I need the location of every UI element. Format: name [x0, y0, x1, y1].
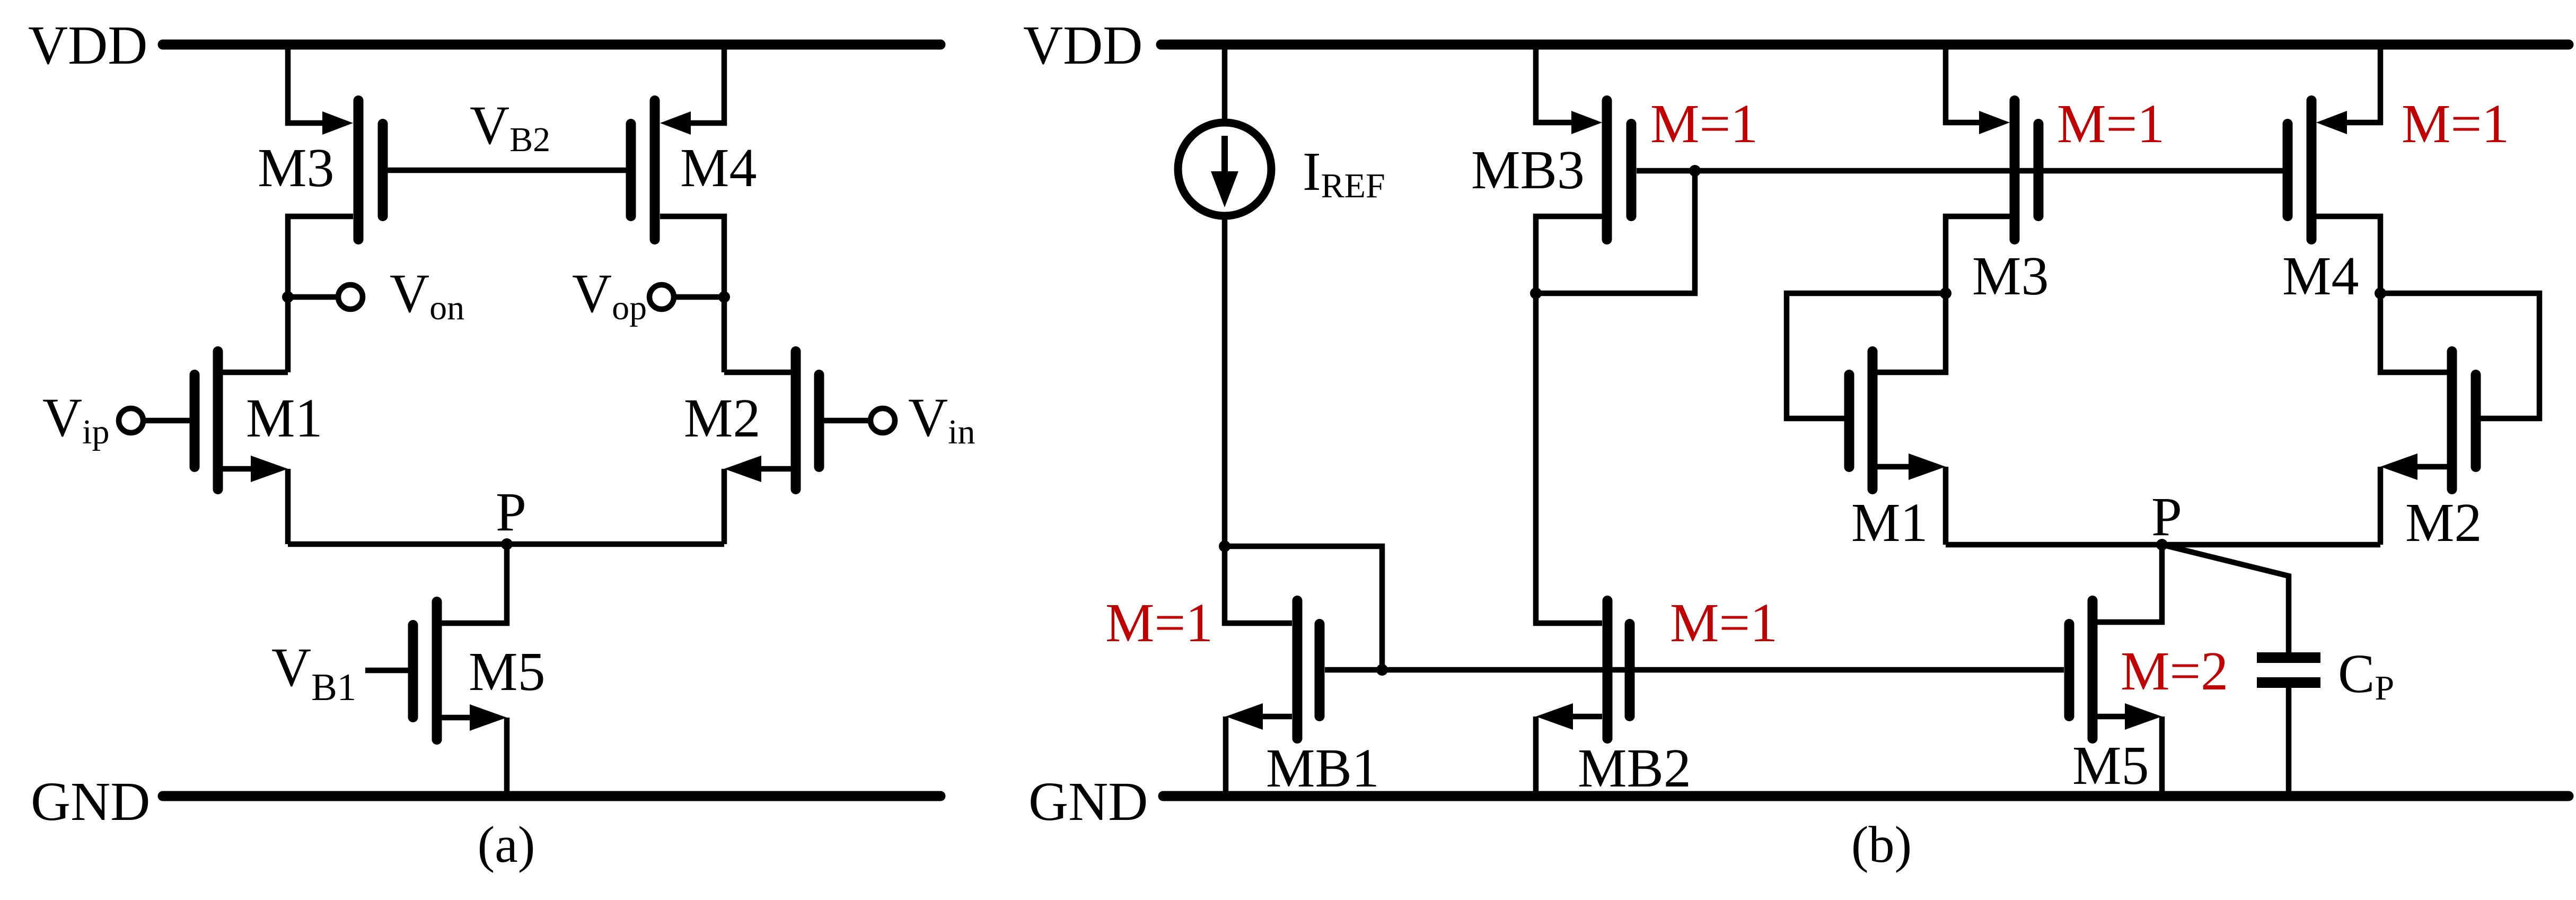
wire M4b source from VDD — [2346, 47, 2380, 123]
wire gate bus M3-M4 (VB2) — [383, 168, 631, 173]
svg-text:M=1: M=1 — [1105, 592, 1213, 653]
terminal Von circle — [338, 285, 363, 309]
gate bus MB1-MB2-M5 — [1325, 667, 2064, 673]
gate bus MB3-M3-M4 — [1637, 168, 2283, 174]
M4 source arrow — [660, 111, 691, 135]
wire M1 drain — [223, 370, 288, 375]
svg-text:M=1: M=1 — [1670, 592, 1778, 653]
MB2 source arrow — [1536, 703, 1573, 730]
VDD rail (a) — [163, 40, 940, 50]
wire M4 drain — [660, 216, 724, 372]
svg-text:M5: M5 — [469, 641, 545, 702]
wire M2 gate — [824, 418, 871, 424]
wire M1b source to P — [1943, 467, 1949, 545]
wire M2b diode loop — [2380, 293, 2539, 418]
wire M5b source to GND — [2159, 716, 2165, 799]
wire Vop tap — [674, 294, 724, 300]
transistor M4b channel bar — [2307, 101, 2317, 240]
wire IREF to MB1 — [1222, 216, 1228, 546]
node MB3 gate junction dot — [1689, 165, 1701, 177]
wire M1b drain — [1877, 293, 1946, 372]
svg-text:M4: M4 — [680, 137, 757, 198]
svg-text:MB3: MB3 — [1471, 139, 1585, 200]
VDD rail (b) — [1161, 40, 2569, 50]
wire M2b drain — [2380, 293, 2447, 372]
wire M2 source — [760, 466, 791, 472]
transistor M3 channel bar — [354, 101, 364, 240]
node MB1 gate junction dot — [1376, 664, 1388, 676]
terminal Vop circle — [649, 285, 674, 309]
svg-text:VDD: VDD — [1023, 15, 1142, 76]
wire P to CP diagonal — [2162, 545, 2289, 652]
svg-text:M1: M1 — [1851, 492, 1928, 553]
wire M1b source — [1877, 464, 1910, 470]
transistor M5b gate bar — [2064, 624, 2074, 716]
wire MB1 source to GND — [1223, 716, 1229, 799]
wire M4b drain — [2316, 216, 2380, 293]
M5 source arrow — [470, 704, 507, 731]
transistor MB3 channel bar — [1602, 101, 1612, 240]
svg-text:M=1: M=1 — [1650, 93, 1758, 154]
M2b source arrow — [2380, 453, 2417, 480]
transistor M1 channel bar — [213, 352, 223, 490]
current source IREF circle — [1178, 123, 1271, 216]
wire M3b source from VDD — [1946, 47, 1980, 123]
transistor M5 gate bar — [408, 625, 418, 718]
wire M5 gate (VB1) — [365, 668, 408, 674]
svg-text:GND: GND — [31, 771, 150, 832]
wire M1 gate — [143, 418, 190, 424]
capacitor CP bottom plate — [2257, 677, 2320, 688]
IREF arrow head — [1211, 171, 1238, 207]
transistor M4 gate bar — [626, 124, 636, 216]
wire M2 source to P — [722, 469, 727, 544]
transistor M4 channel bar — [650, 101, 660, 240]
wire MB1 source — [1262, 714, 1292, 720]
transistor MB1 channel bar — [1293, 601, 1303, 739]
wire node P bus (b) — [1946, 542, 2380, 548]
svg-text:M3: M3 — [258, 137, 334, 198]
GND rail (b) — [1163, 791, 2569, 801]
wire M4 source from VDD — [688, 47, 724, 123]
transistor M2 channel bar — [791, 352, 801, 490]
wire M5b drain to P — [2097, 545, 2162, 622]
svg-text:M5: M5 — [2072, 735, 2149, 796]
svg-text:P: P — [496, 482, 526, 543]
node Von junction dot — [282, 291, 294, 303]
transistor M5 channel bar — [432, 602, 442, 740]
wire VDD to IREF — [1222, 47, 1228, 125]
transistor MB1 gate bar — [1315, 624, 1325, 716]
svg-text:M2: M2 — [2405, 492, 2482, 553]
transistor MB2 gate bar — [1625, 624, 1635, 716]
M1b source arrow — [1909, 453, 1946, 480]
svg-text:MB1: MB1 — [1266, 738, 1379, 799]
wire M1 source to P — [285, 469, 291, 544]
wire MB1 drain — [1225, 546, 1292, 623]
svg-text:(a): (a) — [478, 816, 535, 873]
wire MB2 source — [1572, 714, 1602, 720]
wire M5b source — [2097, 714, 2127, 720]
transistor MB2 channel bar — [1603, 601, 1613, 739]
wire MB2 source to GND — [1533, 716, 1539, 799]
svg-text:VDD: VDD — [28, 15, 147, 76]
transistor M5b channel bar — [2088, 601, 2098, 739]
wire M3 source from VDD — [288, 47, 326, 123]
node MB3 drain junction dot — [1530, 287, 1542, 299]
M4b source arrow — [2316, 111, 2347, 134]
wire M5 source to GND — [504, 718, 510, 799]
svg-text:M1: M1 — [246, 388, 322, 449]
svg-text:M3: M3 — [1972, 246, 2049, 307]
M5b source arrow — [2125, 703, 2162, 730]
wire MB3 drain down to MB2 — [1536, 216, 1602, 623]
MB1 source arrow — [1226, 703, 1263, 730]
wire node P bus — [288, 541, 724, 547]
svg-text:M=1: M=1 — [2402, 93, 2509, 154]
node IREF-MB1 junction dot — [1219, 540, 1230, 552]
M3b source arrow — [1979, 111, 2010, 134]
node M1b drain junction dot — [1940, 287, 1951, 299]
transistor M2b channel bar — [2447, 352, 2457, 490]
transistor M2b gate bar — [2471, 375, 2481, 467]
wire M1 source — [223, 466, 253, 472]
transistor M3b channel bar — [2010, 101, 2020, 240]
svg-text:M2: M2 — [684, 388, 760, 449]
transistor M3b gate bar — [2034, 124, 2044, 216]
node P junction dot (b) — [2156, 539, 2168, 551]
terminal Vin circle — [871, 408, 895, 433]
node M2b drain junction dot — [2375, 287, 2386, 299]
wire Von tap — [288, 294, 338, 300]
node Vop junction dot — [718, 291, 730, 303]
M2 source arrow — [724, 456, 761, 482]
wire MB3 diode loop — [1536, 171, 1695, 293]
M3 source arrow — [322, 111, 353, 135]
svg-text:M4: M4 — [2282, 246, 2359, 307]
wire M5 source — [442, 715, 472, 721]
M1 source arrow — [251, 456, 288, 482]
transistor M1b channel bar — [1868, 352, 1878, 490]
IREF arrow shaft — [1221, 136, 1228, 175]
wire MB3 source from VDD — [1536, 47, 1572, 123]
wire M3 drain — [288, 216, 353, 372]
transistor M1 gate bar — [190, 375, 200, 467]
svg-text:M=1: M=1 — [2057, 93, 2165, 154]
svg-text:M=2: M=2 — [2121, 641, 2228, 702]
svg-text:P: P — [2151, 486, 2182, 547]
node P junction dot — [501, 538, 513, 550]
transistor M1b gate bar — [1844, 375, 1854, 467]
transistor M2 gate bar — [814, 375, 824, 467]
wire M1b diode loop — [1787, 293, 1946, 418]
svg-text:(b): (b) — [1851, 816, 1912, 873]
GND rail (a) — [163, 791, 940, 801]
MB3 source arrow — [1571, 111, 1602, 134]
wire M3b drain — [1946, 216, 2010, 293]
svg-text:MB2: MB2 — [1578, 738, 1691, 799]
svg-text:GND: GND — [1028, 771, 1148, 832]
wire M2b source — [2416, 464, 2447, 470]
wire CP to GND — [2286, 688, 2292, 799]
wire M5 drain — [442, 544, 507, 623]
wire M2 drain — [724, 370, 791, 375]
wire MB1 diode loop — [1225, 546, 1382, 670]
transistor M4b gate bar — [2283, 124, 2293, 216]
transistor M3 gate bar — [378, 124, 388, 216]
wire M2b source to P — [2378, 467, 2384, 545]
terminal Vip circle — [119, 408, 143, 433]
capacitor CP top plate — [2257, 652, 2320, 663]
transistor MB3 gate bar — [1627, 124, 1637, 216]
